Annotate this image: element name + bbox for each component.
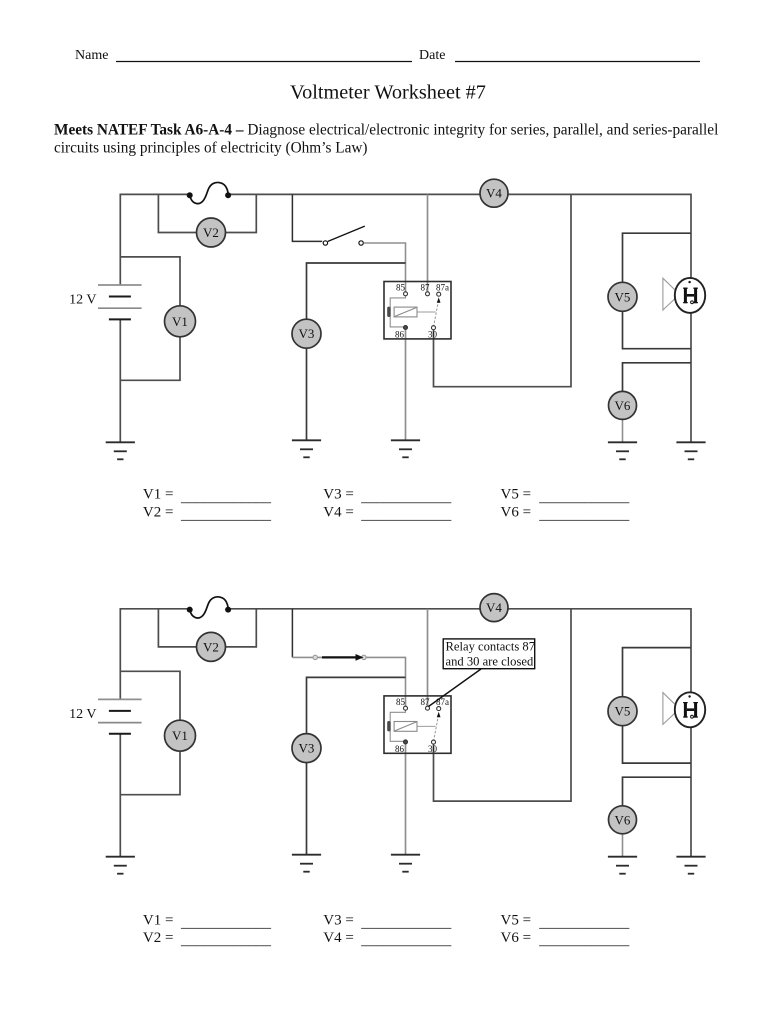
switch S1 contact right xyxy=(359,241,363,245)
wire: relay terminal 30 to top bus xyxy=(434,609,572,801)
voltmeter V6 xyxy=(609,391,637,419)
svg-text:V4 =: V4 = xyxy=(323,930,354,946)
wire: top bus to relay terminal 87 xyxy=(427,609,429,707)
horn H1 speaker cone xyxy=(663,278,680,310)
wire: battery negative to ground xyxy=(119,734,121,857)
relay K2 body xyxy=(384,696,451,753)
svg-text:____________: ____________ xyxy=(538,933,630,949)
relay K2 terminal 85 xyxy=(404,706,408,710)
voltmeter V5 xyxy=(608,697,637,726)
fuse F1 (fusible link) xyxy=(187,182,231,203)
horn H2 ellipse body with H xyxy=(675,692,705,727)
ground horn circuit 1 xyxy=(676,442,705,459)
callout note: relay contacts 87 and 30 are closed xyxy=(443,639,535,669)
relay K1 core bar xyxy=(387,307,390,317)
svg-text:Relay contacts 87: Relay contacts 87 xyxy=(446,640,536,654)
switch S2 contact right xyxy=(362,655,366,659)
ground V3 circuit 2 xyxy=(292,855,321,872)
fuse F2 (fusible link) xyxy=(187,597,231,618)
relay K1 coil box xyxy=(394,307,417,317)
svg-text:V2: V2 xyxy=(203,225,219,240)
voltmeter V1 xyxy=(165,720,196,751)
svg-text:V5 =: V5 = xyxy=(501,487,532,503)
svg-text:V3 =: V3 = xyxy=(323,912,354,928)
relay K1 armature xyxy=(434,302,439,327)
switch S1 contact left xyxy=(323,241,327,245)
svg-text:V1 =: V1 = xyxy=(143,487,174,503)
voltmeter V3 xyxy=(292,319,321,348)
horn H1 ellipse body with H xyxy=(675,278,705,313)
voltmeter V1 xyxy=(165,306,196,337)
svg-text:____________: ____________ xyxy=(360,489,452,505)
svg-text:86: 86 xyxy=(395,330,405,340)
relay K1 coil loop wire xyxy=(390,296,405,327)
wire: relay terminal 86 to ground xyxy=(405,329,407,440)
svg-text:____________: ____________ xyxy=(360,933,452,949)
svg-text:____________: ____________ xyxy=(360,507,452,523)
relay K1 armature arrowhead xyxy=(437,297,441,302)
svg-text:and 30 are closed: and 30 are closed xyxy=(446,655,534,669)
svg-text:V4: V4 xyxy=(486,186,502,201)
svg-text:____________: ____________ xyxy=(180,489,272,505)
relay K2 core bar xyxy=(387,721,390,731)
svg-text:85: 85 xyxy=(396,697,406,707)
svg-text:Name: Name xyxy=(75,48,108,63)
svg-text:V5: V5 xyxy=(615,704,631,719)
wire: V2 branch across fuse xyxy=(158,194,256,232)
wire: V5 branch top xyxy=(623,648,692,711)
ground horn circuit 2 xyxy=(676,857,705,874)
relay K1 terminal 86 xyxy=(404,326,408,330)
svg-text:V6 =: V6 = xyxy=(501,504,532,520)
ground battery 1 xyxy=(106,442,135,459)
wire: V3 branch from relay 85 wire xyxy=(307,677,406,748)
svg-text:V3 =: V3 = xyxy=(323,487,354,503)
svg-text:____________: ____________ xyxy=(538,507,630,523)
svg-text:30: 30 xyxy=(428,744,438,754)
relay K2 terminal 30 xyxy=(432,740,436,744)
battery B2 12V plates xyxy=(98,699,142,733)
svg-text:V1: V1 xyxy=(172,314,188,329)
svg-text:30: 30 xyxy=(428,330,438,340)
wire: battery positive to fuse xyxy=(120,194,189,285)
wire: V6 branch xyxy=(623,363,692,406)
svg-text:V6: V6 xyxy=(615,812,631,827)
svg-text:86: 86 xyxy=(395,744,405,754)
svg-text:V5 =: V5 = xyxy=(501,912,532,928)
relay K2 terminal 87a xyxy=(437,707,441,711)
svg-text:V4 =: V4 = xyxy=(323,504,354,520)
wire: relay terminal 30 to top bus xyxy=(434,194,572,386)
wire: V5 branch bottom xyxy=(623,310,692,348)
svg-text:V2 =: V2 = xyxy=(143,930,174,946)
relay K2 terminal 87 xyxy=(426,706,430,710)
wire: V3 to ground xyxy=(306,762,308,855)
voltmeter V3 xyxy=(292,734,321,763)
relay K2 terminal 86 xyxy=(404,740,408,744)
svg-text:____________: ____________ xyxy=(360,915,452,931)
wire: top bus to switch xyxy=(291,609,293,658)
svg-text:V5: V5 xyxy=(615,289,631,304)
svg-text:V2 =: V2 = xyxy=(143,504,174,520)
voltmeter V2 xyxy=(197,632,226,661)
svg-text:V2: V2 xyxy=(203,639,219,654)
wire: V1 parallel branch across battery xyxy=(120,671,180,794)
wire: battery positive to fuse xyxy=(120,609,189,700)
svg-text:V3: V3 xyxy=(299,326,315,341)
svg-text:circuits using principles of e: circuits using principles of electricity… xyxy=(54,140,368,157)
wire: V6 to ground xyxy=(622,833,624,857)
wire: V5 branch bottom xyxy=(623,725,692,763)
ground V3 circuit 1 xyxy=(292,440,321,457)
switch S2 closed arrow xyxy=(322,656,357,658)
answer blanks block 1 xyxy=(143,487,630,523)
wire: V6 to ground xyxy=(622,418,624,442)
wire: switch to relay terminal 85 xyxy=(364,243,406,293)
svg-text:V1 =: V1 = xyxy=(143,912,174,928)
wire: V6 branch xyxy=(623,777,692,820)
svg-text:V1: V1 xyxy=(172,728,188,743)
svg-text:V6 =: V6 = xyxy=(501,930,532,946)
callout pointer line to relay terminal 87 xyxy=(429,669,482,707)
svg-text:Voltmeter Worksheet #7: Voltmeter Worksheet #7 xyxy=(290,82,486,104)
svg-text:87a: 87a xyxy=(436,283,449,293)
switch S2 contact left xyxy=(313,655,317,659)
relay K1 terminal 85 xyxy=(404,292,408,296)
relay K2 armature arrowhead xyxy=(437,712,441,717)
relay K2 coil loop wire xyxy=(390,710,405,741)
svg-text:Date: Date xyxy=(419,48,445,63)
voltmeter V4 xyxy=(480,179,508,207)
horn H2 speaker cone xyxy=(663,693,680,725)
relay K1 terminal 87 xyxy=(426,292,430,296)
relay K1 pin labels 85 87 87a 86 30 xyxy=(395,283,449,340)
relay K1 body xyxy=(384,282,451,339)
ground battery 2 xyxy=(106,857,135,874)
relay K1 terminal 30 xyxy=(432,326,436,330)
battery B1 12V plates xyxy=(98,285,142,319)
wire: switch to relay terminal 85 xyxy=(292,657,405,707)
svg-text:V6: V6 xyxy=(615,398,631,413)
svg-text:87a: 87a xyxy=(436,697,449,707)
wire: fuse to horn branch (top bus) xyxy=(228,609,691,857)
svg-text:____________: ____________ xyxy=(180,507,272,523)
wire: V3 branch from relay 85 wire xyxy=(307,263,406,334)
svg-text:V3: V3 xyxy=(299,741,315,756)
relay K1 actuating link xyxy=(417,311,436,313)
svg-text:____________: ____________ xyxy=(538,915,630,931)
relay K1 terminal 87a xyxy=(437,292,441,296)
wire: top bus to switch xyxy=(292,194,322,241)
relay K2 armature xyxy=(434,717,439,742)
wire: V5 branch top xyxy=(623,233,692,296)
ground V6 circuit 2 xyxy=(608,857,637,874)
voltmeter V6 xyxy=(609,806,637,834)
svg-text:____________: ____________ xyxy=(180,915,272,931)
svg-text:____________: ____________ xyxy=(180,933,272,949)
wire: top bus to relay terminal 87 xyxy=(427,194,429,292)
svg-text:Meets NATEF Task A6-A-4 – Diag: Meets NATEF Task A6-A-4 – Diagnose elect… xyxy=(54,121,718,138)
voltmeter V4 xyxy=(480,594,508,622)
relay K2 coil box xyxy=(394,722,417,732)
svg-text:87: 87 xyxy=(421,283,431,293)
ground relay 86 circuit 2 xyxy=(391,855,420,872)
switch S1 lever (open) xyxy=(328,226,365,241)
wire: V3 to ground xyxy=(306,347,308,440)
wire: fuse to horn branch (top bus) xyxy=(228,194,691,442)
svg-text:12 V: 12 V xyxy=(69,293,96,308)
svg-text:85: 85 xyxy=(396,283,406,293)
relay K2 pin labels 85 87 87a 86 30 xyxy=(395,697,449,754)
ground relay 86 circuit 1 xyxy=(391,440,420,457)
svg-text:V4: V4 xyxy=(486,600,502,615)
svg-text:12 V: 12 V xyxy=(69,707,96,722)
wire: relay terminal 86 to ground xyxy=(405,744,407,855)
wire: V1 parallel branch across battery xyxy=(120,257,180,380)
voltmeter V5 xyxy=(608,282,637,311)
wire: V2 branch across fuse xyxy=(158,609,256,647)
wire: battery negative to ground xyxy=(119,319,121,442)
voltmeter V2 xyxy=(197,218,226,247)
answer blanks block 2 xyxy=(143,912,630,948)
ground V6 circuit 1 xyxy=(608,442,637,459)
svg-text:____________: ____________ xyxy=(538,489,630,505)
relay K2 actuating link xyxy=(417,725,436,727)
